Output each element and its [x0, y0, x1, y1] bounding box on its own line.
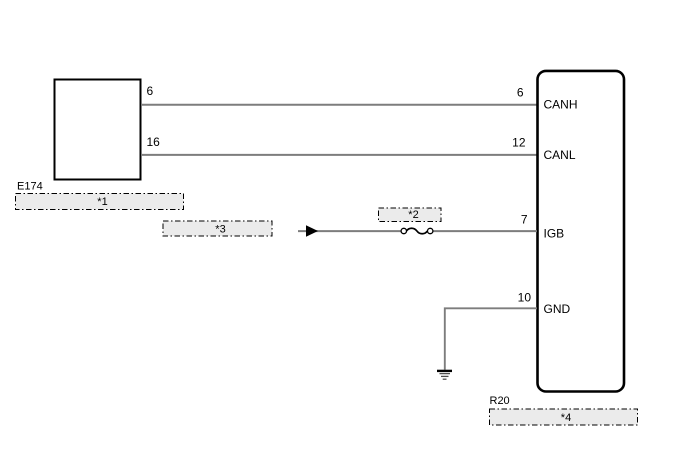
ECU R20 box — [538, 71, 625, 392]
svg-text:GND: GND — [544, 302, 571, 316]
svg-text:16: 16 — [147, 135, 161, 149]
wire CANH — [141, 104, 537, 106]
svg-text:10: 10 — [518, 291, 532, 305]
fuse symbol wave — [406, 228, 427, 234]
svg-text:6: 6 — [147, 84, 154, 98]
svg-text:R20: R20 — [490, 395, 510, 407]
wire CANL — [141, 154, 537, 156]
wire GND — [445, 308, 537, 370]
svg-text:*4: *4 — [561, 412, 571, 424]
connector E174 box — [55, 80, 141, 180]
svg-text:IGB: IGB — [544, 227, 565, 241]
svg-text:*1: *1 — [97, 196, 107, 208]
fuse symbol right terminal — [428, 228, 433, 233]
note box *2 — [379, 208, 442, 222]
svg-text:7: 7 — [521, 213, 528, 227]
svg-text:E174: E174 — [17, 181, 43, 193]
svg-text:CANL: CANL — [544, 148, 576, 162]
svg-text:6: 6 — [517, 86, 524, 100]
ground symbol — [437, 371, 452, 379]
note box *4 — [490, 409, 638, 425]
wire IGB right segment — [430, 230, 537, 232]
svg-text:12: 12 — [512, 136, 526, 150]
svg-text:*3: *3 — [215, 224, 225, 236]
note box *1 — [16, 194, 184, 210]
svg-text:CANH: CANH — [544, 98, 578, 112]
fuse symbol left terminal — [401, 228, 406, 233]
note box *3 — [163, 221, 272, 236]
arrow on IGB wire — [306, 225, 318, 236]
wire IGB left segment — [298, 230, 404, 232]
svg-text:*2: *2 — [408, 209, 418, 221]
